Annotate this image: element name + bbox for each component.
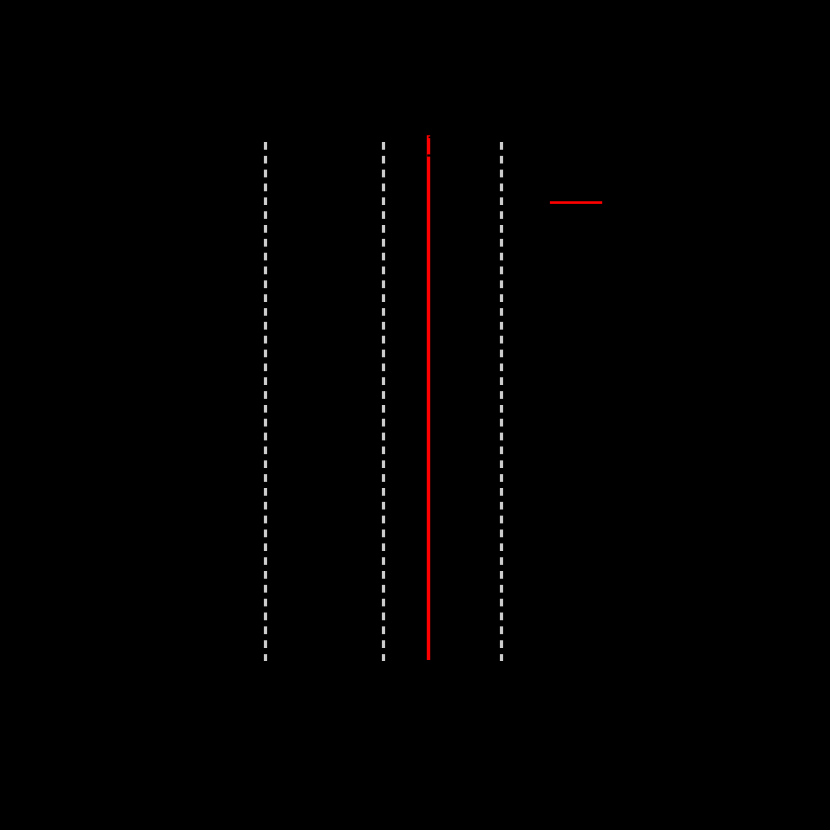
red vertical abline	[427, 135, 430, 660]
legend key red line	[550, 201, 602, 204]
black crossing notch over red line	[427, 154, 431, 156]
dashed gridline v1	[264, 142, 267, 661]
dashed gridline v3	[500, 142, 503, 661]
dashed gridline v2	[382, 142, 385, 661]
black top-right notch on red line	[429, 137, 431, 139]
